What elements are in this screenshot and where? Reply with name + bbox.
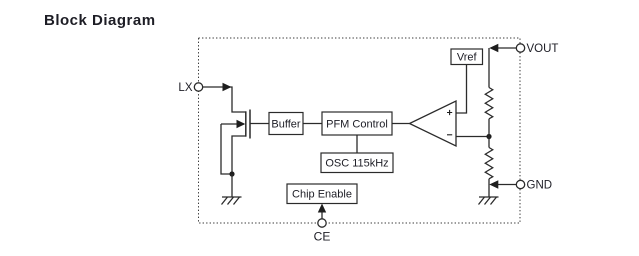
wire body to source junction bbox=[221, 124, 232, 174]
block OSC 115kHz bbox=[321, 153, 393, 173]
wire resistor R2 to ground bbox=[488, 179, 490, 197]
svg-text:GND: GND bbox=[527, 180, 553, 192]
comparator U1 bbox=[410, 101, 457, 146]
wire VOUT node down to resistor R1 bbox=[488, 48, 490, 88]
transistor M1 body arrow wire bbox=[221, 123, 244, 125]
arrowhead into Chip Enable bbox=[318, 204, 326, 213]
svg-text:CE: CE bbox=[314, 230, 331, 244]
wire PFM Control to OSC bbox=[356, 135, 358, 153]
wire between resistors bbox=[488, 119, 490, 148]
wire source node to ground bbox=[231, 174, 233, 197]
wire Vref to comparator plus input bbox=[456, 65, 467, 114]
wire CE to Chip Enable bbox=[321, 210, 323, 219]
ground symbol right bbox=[479, 197, 499, 205]
arrowhead at divider bottom bbox=[489, 180, 498, 189]
block Buffer bbox=[269, 113, 303, 135]
transistor M1 source stub bbox=[232, 136, 246, 174]
ground symbol left bbox=[222, 197, 242, 205]
junction dot source node bbox=[229, 171, 234, 176]
arrowhead on LX wire bbox=[223, 83, 232, 92]
svg-text:LX: LX bbox=[178, 82, 192, 94]
arrowhead at divider top bbox=[489, 44, 498, 53]
wire LX to drain corner bbox=[203, 87, 246, 112]
terminal LX bbox=[178, 82, 202, 94]
terminal CE bbox=[314, 219, 331, 244]
wire gate to Buffer bbox=[250, 123, 269, 125]
wire GND terminal to divider bottom bbox=[497, 184, 517, 186]
transistor M1 body arrowhead bbox=[237, 120, 246, 128]
transistor M1 channel line bbox=[245, 111, 247, 136]
IC boundary dashed box bbox=[199, 38, 521, 223]
wire VOUT terminal to divider top bbox=[497, 47, 517, 49]
resistor R1 upper bbox=[485, 88, 493, 119]
svg-text:VOUT: VOUT bbox=[527, 43, 559, 55]
junction dot divider node bbox=[486, 134, 491, 139]
wire PFM Control to comparator output bbox=[392, 123, 410, 125]
svg-text:Block Diagram: Block Diagram bbox=[44, 12, 156, 29]
block Vref bbox=[451, 49, 483, 65]
transistor M1 gate line bbox=[249, 110, 251, 139]
block Chip Enable bbox=[287, 184, 357, 204]
wire Buffer to PFM Control bbox=[303, 123, 322, 125]
block PFM Control bbox=[322, 112, 392, 135]
terminal GND bbox=[516, 180, 552, 192]
svg-text:Vref: Vref bbox=[457, 52, 478, 64]
svg-text:OSC 115kHz: OSC 115kHz bbox=[325, 158, 388, 170]
svg-text:PFM Control: PFM Control bbox=[326, 119, 388, 131]
terminal VOUT bbox=[516, 43, 558, 55]
wire comparator minus input to divider bbox=[456, 136, 489, 138]
resistor R2 lower bbox=[485, 148, 493, 179]
svg-text:Buffer: Buffer bbox=[271, 119, 300, 131]
svg-text:Chip Enable: Chip Enable bbox=[292, 189, 352, 201]
